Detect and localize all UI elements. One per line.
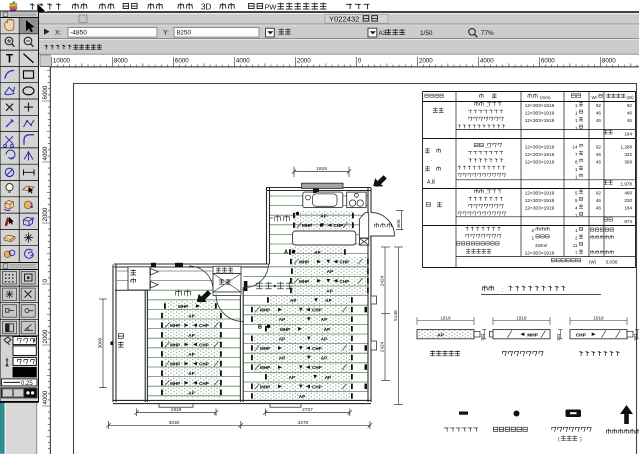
svg-text:MHP: MHP: [170, 342, 180, 347]
color note line: [482, 286, 487, 291]
zoom tool icon: [469, 29, 476, 36]
middle wall hinge mark: [244, 281, 248, 291]
svg-text:6000: 6000: [42, 85, 49, 99]
tool: zoom in: [5, 37, 13, 45]
door arc yoshitsu top: [189, 266, 213, 290]
svg-text:4270: 4270: [298, 420, 309, 426]
svg-text:92: 92: [596, 191, 602, 196]
svg-text:Y022432: Y022432: [329, 15, 359, 24]
svg-text:2: 2: [531, 228, 534, 233]
svg-text:2727: 2727: [302, 407, 313, 413]
svg-text:303: 303: [556, 333, 561, 341]
table section western room: [426, 203, 430, 207]
tool: zoom out: [24, 37, 32, 45]
svg-text:MHP: MHP: [299, 260, 309, 265]
tool: red pen cursor: [5, 218, 9, 226]
tool: 3d plane cursor: [23, 186, 35, 191]
legend panel ap: [416, 317, 418, 325]
step rectangle right: [270, 404, 301, 407]
door arc living top: [245, 264, 269, 288]
svg-text:77%: 77%: [481, 30, 494, 37]
dimension 2424 upper right: [384, 247, 386, 381]
svg-text:(W): (W): [589, 260, 597, 265]
svg-text:3000: 3000: [98, 337, 104, 348]
svg-text:1: 1: [575, 213, 578, 218]
oshiire door triangles: [151, 269, 159, 276]
svg-text:92: 92: [596, 103, 602, 108]
svg-text:AP: AP: [325, 298, 331, 303]
table section misc: [466, 227, 469, 231]
constraint palette close box: [3, 264, 8, 268]
western room panel bands: [165, 301, 216, 311]
table header: [425, 94, 429, 97]
svg-text:303: 303: [633, 333, 638, 341]
storeroom top wall: [115, 289, 147, 291]
selected arrow tool: [20, 18, 38, 34]
paste direction arrow yoshitsu: [197, 290, 211, 302]
svg-text:AP: AP: [299, 394, 305, 399]
constraint: snap distance: [25, 309, 29, 313]
storeroom wall: [144, 290, 146, 402]
svg-text:0: 0: [42, 279, 49, 283]
svg-text:AP: AP: [188, 314, 194, 319]
tool: rotate object: [24, 201, 32, 209]
attribute: fill color: [4, 337, 11, 345]
page frame: [74, 84, 637, 454]
svg-text:MHP: MHP: [527, 333, 538, 339]
svg-text:1919: 1919: [593, 315, 604, 320]
svg-text:12×303×1919: 12×303×1919: [525, 251, 555, 257]
svg-text:CHP: CHP: [199, 362, 209, 367]
svg-text:368: 368: [624, 160, 632, 165]
tool: delete: [6, 104, 13, 111]
svg-text:0.25: 0.25: [21, 381, 33, 387]
svg-text:46: 46: [596, 111, 602, 116]
top wall black mark kitchen: [314, 187, 320, 192]
toolbar: [5, 25, 639, 40]
svg-text:12×303×1919: 12×303×1919: [525, 191, 555, 197]
oshiire closet: [128, 267, 150, 290]
svg-text:1919: 1919: [516, 315, 527, 320]
svg-text:12×303×1919: 12×303×1919: [525, 145, 555, 151]
horizontal ruler: [51, 55, 639, 67]
svg-text:5: 5: [575, 198, 578, 203]
tool: rotate: [6, 150, 15, 159]
menu bar: [0, 0, 639, 12]
svg-text:(W): (W): [627, 95, 635, 100]
kitchen MHP/CHP panel band: [294, 220, 353, 230]
svg-text:PW: PW: [265, 2, 277, 11]
palette close box: [3, 12, 8, 16]
svg-text:AP: AP: [321, 336, 327, 341]
tool: polyline: [24, 120, 35, 127]
tool: rectangle: [24, 71, 34, 78]
tool: light bulb: [6, 184, 13, 191]
svg-text:11: 11: [573, 243, 578, 248]
tool: eyedropper: [6, 119, 14, 127]
legend panel chp: [569, 317, 571, 325]
tool: fillet: [24, 135, 34, 145]
kitchen top wall: [266, 187, 371, 189]
svg-text:MHP: MHP: [260, 346, 270, 351]
svg-text:8: 8: [575, 160, 578, 165]
controller box with X: [360, 238, 369, 245]
svg-text:(mm): (mm): [540, 95, 551, 100]
svg-text:AP: AP: [279, 336, 285, 341]
svg-text:A: A: [284, 250, 288, 256]
svg-text:AP: AP: [325, 375, 331, 380]
svg-text:12×303×1919: 12×303×1919: [525, 103, 555, 109]
legend: paste direction arrow: [620, 405, 633, 424]
right wall upper: [367, 188, 369, 213]
svg-text:12×303×1919: 12×303×1919: [525, 206, 555, 212]
ruler corner: [40, 55, 51, 67]
tool: wireframe box: [24, 217, 33, 226]
svg-text:—: —: [486, 103, 490, 108]
constraint: half square: [6, 324, 14, 332]
svg-text:MHP: MHP: [299, 279, 309, 284]
dimension 5146 right: [398, 247, 400, 405]
legend: panel joint dash: [459, 412, 468, 415]
constraint: snap angle: [6, 290, 14, 298]
paste direction arrow top right: [373, 175, 387, 186]
svg-text:-4850: -4850: [70, 30, 87, 37]
svg-text:1: 1: [531, 236, 534, 241]
svg-text:46: 46: [627, 111, 633, 116]
svg-text:6000: 6000: [541, 57, 555, 64]
svg-text:12×303×1919: 12×303×1919: [525, 111, 555, 117]
constraint: angle snap: [25, 324, 34, 330]
svg-text:12×303×1919: 12×303×1919: [525, 160, 555, 166]
pen color swatch black: [13, 367, 36, 377]
svg-text:AP: AP: [320, 214, 326, 219]
dimension 606 back door: [401, 211, 403, 230]
constraint: snap object: [25, 274, 33, 281]
tool: pan hand: [5, 19, 14, 31]
kitchen left wall: [266, 188, 268, 265]
tool: trim scissors: [4, 136, 14, 147]
svg-text:AP: AP: [279, 317, 285, 322]
flooring lines: [117, 196, 368, 396]
svg-text:1: 1: [575, 118, 578, 123]
svg-text:4000: 4000: [236, 57, 250, 64]
svg-text:92: 92: [596, 145, 602, 150]
svg-text:CHP: CHP: [312, 365, 322, 370]
svg-text:2000: 2000: [42, 329, 49, 343]
tool: dimension: [24, 169, 35, 175]
svg-text:AP: AP: [327, 269, 333, 274]
layer dropdown: [266, 28, 275, 37]
svg-text:2000: 2000: [42, 207, 49, 221]
right wall window tab 2: [371, 341, 377, 350]
kitchen label: [269, 217, 273, 219]
svg-text:184: 184: [624, 206, 632, 211]
svg-text:CHP: CHP: [199, 381, 209, 386]
legend: controller icon: [566, 410, 582, 418]
table section living/dining: [425, 148, 430, 153]
svg-text:14: 14: [572, 145, 578, 150]
tool: sparkle: [24, 233, 33, 243]
svg-text:MHP: MHP: [178, 304, 188, 309]
dimension 4270 bottom: [369, 421, 371, 429]
dimension 2727 bottom: [264, 409, 266, 417]
parts table: [423, 91, 636, 93]
svg-text:46: 46: [596, 198, 602, 203]
svg-text:3D: 3D: [201, 3, 212, 12]
svg-text:303: 303: [480, 333, 485, 341]
svg-text:AP: AP: [314, 250, 320, 255]
svg-text:Y:: Y:: [163, 30, 169, 37]
svg-text:AP: AP: [324, 327, 330, 332]
attribute: pen color: [6, 358, 8, 366]
window title: [325, 15, 388, 24]
dimension 1919 bottom: [136, 409, 138, 417]
svg-text:MHP: MHP: [170, 381, 180, 386]
svg-text:AP: AP: [321, 317, 327, 322]
svg-text:AP: AP: [321, 356, 327, 361]
svg-text:606: 606: [396, 219, 402, 227]
living room panel bands: [290, 247, 345, 257]
svg-text:8000: 8000: [114, 57, 128, 64]
svg-text:AP: AP: [188, 390, 194, 395]
attribute: line styles: [2, 388, 38, 398]
tsuridana shelf: [213, 266, 241, 273]
svg-text:460: 460: [624, 191, 632, 196]
table section kitchen: [433, 108, 438, 113]
svg-text:MHP: MHP: [260, 308, 270, 313]
svg-text:7: 7: [575, 251, 578, 256]
kitchen sink unit: [303, 192, 343, 208]
bottom wall: [113, 399, 371, 401]
svg-text:4000: 4000: [480, 57, 494, 64]
top wall black mark 1: [175, 263, 183, 267]
svg-text:1: 1: [575, 111, 578, 116]
svg-text:CHP: CHP: [199, 342, 209, 347]
kitchen AP dot: [296, 212, 299, 215]
svg-text:CHP: CHP: [312, 384, 322, 389]
attribute: line weight: [2, 379, 38, 386]
svg-text:1: 1: [575, 126, 578, 131]
western room label: [175, 289, 181, 296]
kitchen back door arc: [371, 213, 395, 237]
vertical ruler: [40, 67, 51, 454]
palette body: [0, 18, 39, 263]
kitchen cupboard: [359, 213, 368, 238]
svg-text:4: 4: [575, 206, 578, 211]
svg-text:8000: 8000: [602, 57, 616, 64]
constraint: constrain tangent: [6, 309, 10, 313]
svg-text:1: 1: [575, 228, 578, 233]
kitchen back door panel: [370, 235, 395, 237]
svg-text:184: 184: [624, 131, 632, 136]
svg-text:AP: AP: [326, 288, 332, 293]
X field: [68, 28, 157, 38]
svg-text:1: 1: [575, 103, 578, 108]
svg-text:CHP: CHP: [340, 260, 350, 265]
svg-text:1: 1: [575, 175, 578, 180]
svg-text:7: 7: [575, 152, 578, 157]
ruler ticks: [51, 57, 637, 67]
legend panel mhp: [492, 317, 494, 325]
left wall mark: [111, 342, 114, 346]
palette title bar: [0, 11, 39, 18]
svg-text:AP: AP: [289, 375, 295, 380]
svg-text:T: T: [6, 53, 13, 65]
svg-text:MHP: MHP: [302, 223, 312, 228]
svg-text:MHP: MHP: [170, 362, 180, 367]
mode bar: [5, 39, 639, 54]
svg-text:MHP: MHP: [260, 384, 270, 389]
svg-text:AP: AP: [279, 356, 285, 361]
tool: slab: [4, 235, 15, 240]
tool: orange rings: [4, 251, 10, 257]
tool: blue swirl: [25, 249, 34, 258]
apple logo: [9, 1, 17, 11]
svg-text:W/: W/: [592, 95, 598, 100]
svg-text:46: 46: [596, 118, 602, 123]
svg-text:X:: X:: [55, 30, 62, 37]
svg-text:AP: AP: [437, 333, 444, 339]
svg-text:CHP: CHP: [312, 346, 322, 351]
tool: move: [24, 103, 33, 112]
svg-text:AP: AP: [290, 298, 296, 303]
kitchen counter bar: [302, 183, 344, 188]
svg-text:2000: 2000: [419, 57, 433, 64]
svg-text:1,288: 1,288: [621, 145, 633, 150]
svg-text:8250: 8250: [177, 30, 192, 37]
window close box: [79, 15, 87, 23]
constraint: snap grid: [5, 274, 13, 282]
kitchen table: [293, 231, 356, 245]
step rectangle left: [159, 404, 193, 407]
constraint palette body: [0, 270, 39, 402]
constraint: snap intersection: [25, 291, 32, 298]
svg-text:—: —: [486, 190, 490, 195]
svg-text:5: 5: [575, 191, 578, 196]
top wall black mark 2: [151, 263, 156, 267]
kitchen AP panel band: [294, 211, 353, 221]
legend: wiring hole dot: [514, 411, 520, 417]
svg-text:MHP: MHP: [280, 327, 290, 332]
svg-text:320ml: 320ml: [535, 243, 547, 248]
right wall lower: [367, 237, 369, 403]
svg-text:12×303×1919: 12×303×1919: [525, 152, 555, 158]
svg-text:0: 0: [358, 57, 362, 64]
svg-text:CHP: CHP: [312, 308, 322, 313]
dimension 1919 kitchen top: [293, 167, 295, 178]
fill color swatch white: [13, 346, 36, 356]
svg-text:322: 322: [624, 152, 632, 157]
svg-text:AP: AP: [188, 371, 194, 376]
svg-text:1,978: 1,978: [621, 182, 633, 187]
tool: polygon: [5, 87, 15, 95]
right wall window tab 1: [371, 296, 377, 304]
window title bar: [5, 12, 639, 25]
svg-text:12×303×1919: 12×303×1919: [525, 118, 555, 124]
svg-text:MHP: MHP: [170, 323, 180, 328]
table total row: [551, 258, 555, 262]
tool: extrude box: [5, 200, 14, 209]
sheet dropdown: [368, 28, 377, 37]
tool: arc: [5, 71, 14, 79]
svg-text:CHP: CHP: [334, 223, 344, 228]
kitchen stove: [347, 192, 366, 208]
dimension 3030 bottom: [108, 421, 110, 429]
left wing top wall: [114, 263, 268, 265]
left wing left wall: [112, 265, 114, 403]
svg-text:AP: AP: [188, 333, 194, 338]
svg-text:3030: 3030: [169, 420, 180, 426]
attribute palette body: [0, 336, 39, 402]
svg-text:CHP: CHP: [199, 323, 209, 328]
svg-text:230: 230: [624, 198, 632, 203]
svg-text:2: 2: [575, 236, 578, 241]
svg-text:2424: 2424: [380, 341, 386, 352]
svg-text:92: 92: [627, 103, 633, 108]
svg-text:MHP: MHP: [260, 365, 270, 370]
svg-text:46: 46: [627, 118, 633, 123]
svg-text:46: 46: [596, 206, 602, 211]
svg-text:A3: A3: [379, 30, 387, 37]
svg-text:A,B: A,B: [427, 180, 436, 186]
svg-text:2424: 2424: [380, 275, 386, 286]
Y field: [174, 28, 259, 38]
door arc middle wall: [216, 295, 243, 322]
tool: attribute mapper: [5, 168, 13, 176]
desktop background: [0, 12, 5, 454]
storeroom label: [119, 334, 124, 339]
svg-text:AP: AP: [188, 352, 194, 357]
svg-text:1919: 1919: [171, 407, 182, 413]
dimension 3000 left: [102, 299, 104, 388]
svg-text:1: 1: [575, 167, 578, 172]
svg-text:4000: 4000: [42, 146, 49, 160]
constraint palette title bar: [0, 263, 39, 270]
svg-text:874: 874: [624, 219, 632, 224]
mono-ire storage: [213, 274, 241, 293]
svg-text:CHP: CHP: [340, 279, 350, 284]
svg-text:B: B: [258, 324, 262, 330]
svg-text:4000: 4000: [42, 390, 49, 404]
svg-text:10000: 10000: [53, 57, 71, 64]
svg-text:2000: 2000: [297, 57, 311, 64]
svg-text:46: 46: [596, 160, 602, 165]
svg-text:1919: 1919: [440, 315, 451, 320]
svg-text:5146: 5146: [393, 310, 399, 321]
back door label: [374, 223, 379, 228]
window frame below palette: [5, 402, 38, 454]
living dining label: [256, 282, 263, 289]
svg-text:1/50: 1/50: [420, 30, 433, 37]
svg-text:1919: 1919: [316, 166, 327, 172]
svg-text:6000: 6000: [175, 57, 189, 64]
tool: arrow: [26, 20, 35, 32]
tool: mirror: [24, 151, 33, 161]
tool: line: [24, 54, 34, 63]
svg-text:3,036: 3,036: [605, 260, 617, 266]
svg-text:46: 46: [596, 152, 602, 157]
svg-text:CHP: CHP: [576, 333, 587, 339]
middle wall: [239, 287, 241, 402]
tool: oval: [23, 87, 34, 95]
svg-text:12×303×1919: 12×303×1919: [525, 198, 555, 204]
